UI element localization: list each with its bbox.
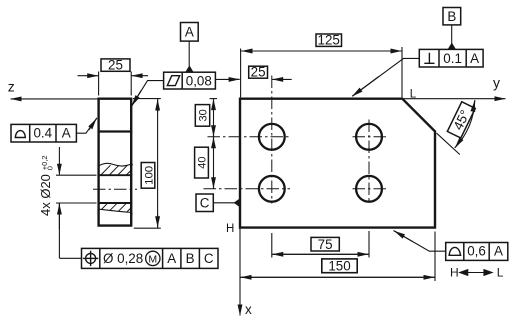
break line upper xyxy=(98,163,133,166)
leader to position frame xyxy=(59,257,81,259)
datum B xyxy=(443,8,461,50)
svg-text:L: L xyxy=(410,88,417,100)
45 deg label xyxy=(447,102,475,138)
hole 2 xyxy=(356,124,382,150)
dim 150 xyxy=(434,232,436,282)
svg-text:H: H xyxy=(226,223,234,235)
dim 25 left view: arrows xyxy=(78,75,99,77)
datum A xyxy=(181,23,199,73)
dim 45 degrees: chamfer extension line xyxy=(437,133,460,154)
svg-text:H: H xyxy=(450,266,459,280)
dim 30 label xyxy=(195,105,209,127)
fcf profile 0.4 A xyxy=(11,124,76,142)
svg-text:x: x xyxy=(245,302,252,317)
dim 100: extension lines xyxy=(133,98,161,100)
H arrow L annotation xyxy=(450,266,504,280)
hole 3 xyxy=(259,176,285,202)
left view chamfer edge line xyxy=(98,130,133,132)
position symbol xyxy=(86,253,96,263)
dim 75 xyxy=(271,233,273,258)
svg-text:30: 30 xyxy=(197,109,209,121)
svg-text:Ø 0,28: Ø 0,28 xyxy=(103,251,143,266)
dim 4x 20 text xyxy=(38,155,54,216)
svg-text:C: C xyxy=(204,251,214,266)
M circle modifier xyxy=(146,251,160,265)
hole 1 xyxy=(259,124,285,150)
45 deg arc xyxy=(455,100,475,148)
left view hole top edge xyxy=(98,174,133,176)
x axis xyxy=(240,228,252,317)
svg-text:A: A xyxy=(62,126,71,141)
svg-text:0.4: 0.4 xyxy=(33,126,52,141)
svg-text:125: 125 xyxy=(318,33,340,48)
svg-text:150: 150 xyxy=(328,259,350,274)
dim 25 left view: label box xyxy=(101,59,130,71)
hole 4 xyxy=(356,176,382,202)
hatching lower band xyxy=(102,204,132,212)
dim 25 left view: extension lines xyxy=(98,72,100,96)
main view outline xyxy=(240,99,435,228)
fcf 0,08 left leader xyxy=(132,81,163,106)
svg-text:75: 75 xyxy=(318,237,333,252)
svg-text:A: A xyxy=(185,25,194,40)
dim 40 label xyxy=(195,147,209,178)
fcf flatness 0,08 xyxy=(164,72,216,89)
svg-text:B: B xyxy=(186,251,195,266)
svg-text:z: z xyxy=(8,79,15,95)
svg-text:A: A xyxy=(167,251,176,266)
dim 100: label box xyxy=(141,163,155,189)
dim 4x 20: dimension line with outside arrows xyxy=(58,147,60,175)
left view outline xyxy=(99,99,132,226)
dim 30/40 xyxy=(210,98,218,100)
svg-text:0,6: 0,6 xyxy=(467,244,486,259)
fcf 0,08 right leader xyxy=(215,78,239,80)
dim 100: dimension line xyxy=(157,99,159,228)
svg-text:0,08: 0,08 xyxy=(186,74,212,89)
fcf 0.1 leader xyxy=(353,58,420,96)
fcf position frame xyxy=(82,248,219,268)
dim 4x 20: extension lines xyxy=(56,174,97,176)
fcf 0,6 leader xyxy=(394,231,446,252)
centerlines xyxy=(204,76,389,204)
svg-text:25: 25 xyxy=(251,65,266,80)
hatching upper band xyxy=(101,165,132,175)
svg-text:C: C xyxy=(200,196,210,211)
extension line left of plate (125/25 dims) xyxy=(240,49,242,98)
z axis xyxy=(8,79,98,99)
y axis xyxy=(403,75,506,99)
svg-text:0: 0 xyxy=(46,166,55,170)
extension line for 125 at L xyxy=(401,47,403,97)
svg-text:A: A xyxy=(494,244,503,259)
datum C xyxy=(196,194,239,212)
dim 125 xyxy=(242,50,403,52)
fcf profile 0,6 A xyxy=(446,243,508,261)
svg-text:4x Ø20: 4x Ø20 xyxy=(38,174,53,216)
left view hole bottom edge xyxy=(98,202,133,204)
fcf 0.4 leader xyxy=(76,118,97,133)
svg-text:25: 25 xyxy=(108,58,123,73)
svg-text:A: A xyxy=(470,51,479,66)
svg-text:B: B xyxy=(447,9,456,24)
svg-text:y: y xyxy=(493,75,500,91)
svg-text:L: L xyxy=(497,266,504,280)
fcf perpendicularity 0.1 A xyxy=(419,49,483,67)
break line lower xyxy=(98,209,132,214)
svg-text:0.1: 0.1 xyxy=(443,51,462,66)
left view hole centerline xyxy=(93,188,137,190)
svg-text:100: 100 xyxy=(144,166,156,185)
svg-text:M: M xyxy=(148,254,157,266)
dim 25 main view xyxy=(228,78,240,80)
svg-text:40: 40 xyxy=(197,156,209,168)
